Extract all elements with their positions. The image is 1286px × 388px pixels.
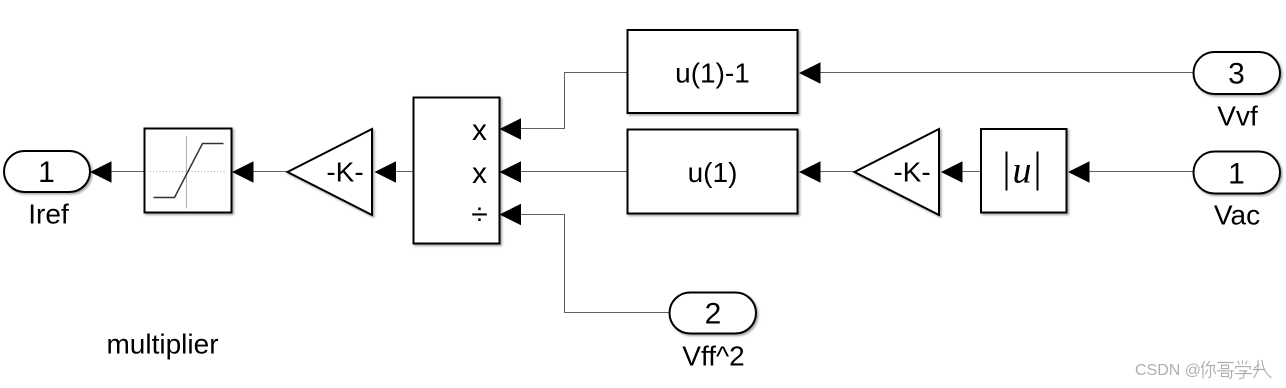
product (multiplier) block [414,98,500,244]
saturation curve [154,144,224,198]
gain -K- triangle (left) [288,129,373,215]
svg-text:Iref: Iref [28,199,69,230]
inport Vac oval [1194,152,1281,194]
Fcn block u(1)-1 [628,30,798,113]
watermark glyph zhang [1254,361,1272,378]
svg-text:x: x [472,157,487,190]
svg-text:Vff^2: Vff^2 [682,341,744,372]
svg-text:CSDN @: CSDN @ [1135,362,1201,379]
svg-text:u: u [1013,150,1032,192]
saturation block U-sat [145,129,232,213]
watermark glyph xue [1236,361,1252,379]
Fcn block u(1) [628,130,798,214]
abs block |u| [981,129,1067,213]
arrow into gain1 [375,161,397,183]
wire Vac to abs [1090,171,1194,173]
wire saturation to Iref [112,171,146,173]
arrow into product port2 [500,161,522,183]
wire gain1 to saturation [254,171,289,173]
arrow into u(1)-1 [799,62,821,84]
svg-text:x: x [472,114,487,147]
inport Vvf oval [1194,52,1281,94]
wire gain2 to u(1) [821,171,856,173]
saturation vertical axis [186,136,188,209]
svg-text:Vvf: Vvf [1217,101,1258,132]
svg-text:1: 1 [1228,158,1245,191]
svg-text:-K-: -K- [893,157,930,188]
arrow into product port3 [500,204,522,226]
svg-text:÷: ÷ [471,198,487,231]
arrow into gain2 [941,161,963,183]
svg-text:u(1): u(1) [688,157,738,188]
watermark glyph ni [1202,362,1216,379]
abs label |u| [1006,152,1008,191]
svg-text:2: 2 [705,298,722,331]
arrow into Iref [90,161,112,183]
svg-text:multiplier: multiplier [106,329,218,360]
arrow into product port1 [500,118,522,140]
wire abs to gain2 [963,171,982,173]
outport Iref oval [4,151,90,192]
svg-text:u(1)-1: u(1)-1 [675,58,750,89]
wire u(1) to product port2 [521,171,627,173]
wire u(1)-1 to product port1 (elbow) [521,73,627,129]
arrow into u(1) [799,161,821,183]
svg-text:3: 3 [1228,58,1245,91]
gain -K- triangle (right) [855,129,940,215]
arrow into saturation [232,161,254,183]
wire product to gain1 [396,171,414,173]
svg-text:1: 1 [38,156,55,189]
wire Vvf to u(1)-1 [821,72,1194,74]
watermark glyph ge [1218,363,1234,379]
arrow into abs [1068,161,1090,183]
svg-text:Vac: Vac [1214,200,1260,231]
inport Vff^2 oval [670,293,757,334]
svg-text:-K-: -K- [326,157,363,188]
wire Vff^2 to product port3 (elbow) [521,215,670,313]
saturation horizontal axis (dotted) [150,171,226,173]
